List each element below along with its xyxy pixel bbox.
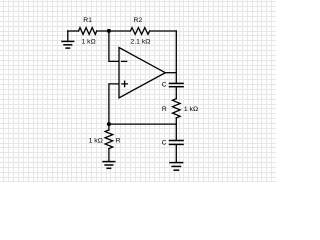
ground GND1 (left input ground) — [62, 31, 74, 48]
wire capacitor C to resistor R (right) — [175, 87, 177, 99]
wire resistor R to ground GND2 — [108, 149, 110, 161]
svg-text:R2: R2 — [133, 17, 142, 24]
wire ground to R1 — [68, 30, 79, 32]
ground GND3 (bottom-right) — [170, 163, 183, 171]
wire non-inverting input left and down to node B — [109, 84, 119, 124]
node B (junction dot) — [107, 122, 111, 126]
op-amp U1 — [119, 48, 165, 98]
wire capacitor C to ground GND3 — [175, 145, 177, 162]
wire R2 to right rail corner — [150, 30, 177, 32]
capacitor C (top, on right rail) — [170, 83, 184, 86]
svg-text:R1: R1 — [83, 17, 92, 24]
wire node B down to resistor R (bottom-left) — [108, 124, 110, 130]
svg-text:R: R — [116, 138, 121, 145]
svg-text:1 kΩ: 1 kΩ — [184, 106, 198, 113]
resistor R1 — [79, 28, 97, 35]
capacitor C (bottom, on right rail) — [170, 141, 184, 145]
wire resistor R down across node to capacitor C bottom — [175, 118, 177, 140]
resistor R2 — [130, 28, 149, 35]
node A (junction dot) — [107, 29, 111, 33]
svg-text:R: R — [162, 106, 167, 113]
wire node B to right rail — [109, 123, 176, 125]
svg-text:1 kΩ: 1 kΩ — [89, 138, 103, 145]
svg-text:1 kΩ: 1 kΩ — [82, 39, 96, 46]
op-amp minus sign (inverting input) — [122, 60, 127, 62]
wire node A down to inverting input — [109, 31, 119, 62]
svg-text:C: C — [162, 82, 167, 89]
ground GND2 (bottom-left) — [103, 162, 115, 169]
resistor R (bottom-left vertical) — [105, 130, 113, 149]
svg-text:C: C — [162, 140, 167, 147]
wire R1 to node A and on to R2 — [97, 30, 131, 32]
op-amp plus sign (non-inverting input) — [122, 81, 127, 86]
wire right rail down to capacitor C top — [175, 31, 177, 83]
wire op-amp output to right rail — [165, 72, 176, 74]
resistor R (right vertical) — [173, 99, 181, 118]
svg-text:2.1 kΩ: 2.1 kΩ — [130, 39, 150, 46]
